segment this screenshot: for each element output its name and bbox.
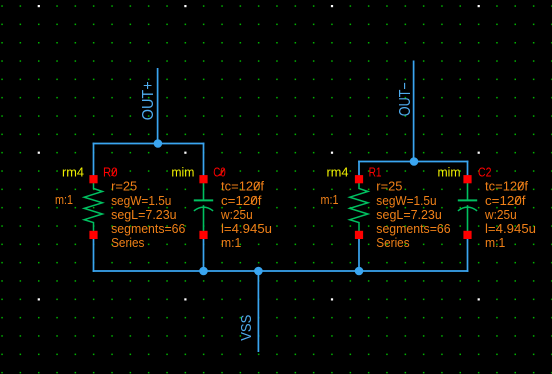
svg-text:w:25u: w:25u xyxy=(220,207,253,222)
svg-text:mim: mim xyxy=(171,165,194,180)
svg-text:m:1: m:1 xyxy=(485,235,505,250)
svg-text:OUT+: OUT+ xyxy=(140,81,157,120)
svg-text:rm4: rm4 xyxy=(62,165,84,180)
svg-text:segments=66: segments=66 xyxy=(376,221,450,236)
svg-text:segW=1.5u: segW=1.5u xyxy=(111,193,171,208)
svg-text:mim: mim xyxy=(438,165,461,180)
svg-text:r=25: r=25 xyxy=(111,179,137,194)
svg-text:tc=120f: tc=120f xyxy=(485,179,528,194)
svg-text:segL=7.23u: segL=7.23u xyxy=(376,207,442,222)
svg-text:c=120f: c=120f xyxy=(221,193,262,208)
svg-text:segL=7.23u: segL=7.23u xyxy=(111,207,177,222)
svg-text:tc=120f: tc=120f xyxy=(221,179,264,194)
svg-text:VSS: VSS xyxy=(238,315,255,341)
svg-text:l=4.945u: l=4.945u xyxy=(221,221,272,236)
svg-text:C0: C0 xyxy=(213,165,226,180)
svg-text:m:1: m:1 xyxy=(221,235,241,250)
svg-text:w:25u: w:25u xyxy=(484,207,517,222)
svg-text:l=4.945u: l=4.945u xyxy=(485,221,536,236)
svg-text:r=25: r=25 xyxy=(376,179,402,194)
svg-text:m:1: m:1 xyxy=(55,192,73,207)
svg-text:R1: R1 xyxy=(369,165,382,180)
svg-text:segments=66: segments=66 xyxy=(111,221,185,236)
svg-text:R0: R0 xyxy=(103,165,118,180)
svg-text:rm4: rm4 xyxy=(327,165,349,180)
svg-text:Series: Series xyxy=(376,235,410,250)
svg-text:C2: C2 xyxy=(478,165,492,180)
svg-text:segW=1.5u: segW=1.5u xyxy=(376,193,436,208)
svg-text:OUT−: OUT− xyxy=(397,82,414,116)
svg-text:c=120f: c=120f xyxy=(485,193,526,208)
svg-text:m:1: m:1 xyxy=(321,192,339,207)
svg-text:Series: Series xyxy=(111,235,145,250)
